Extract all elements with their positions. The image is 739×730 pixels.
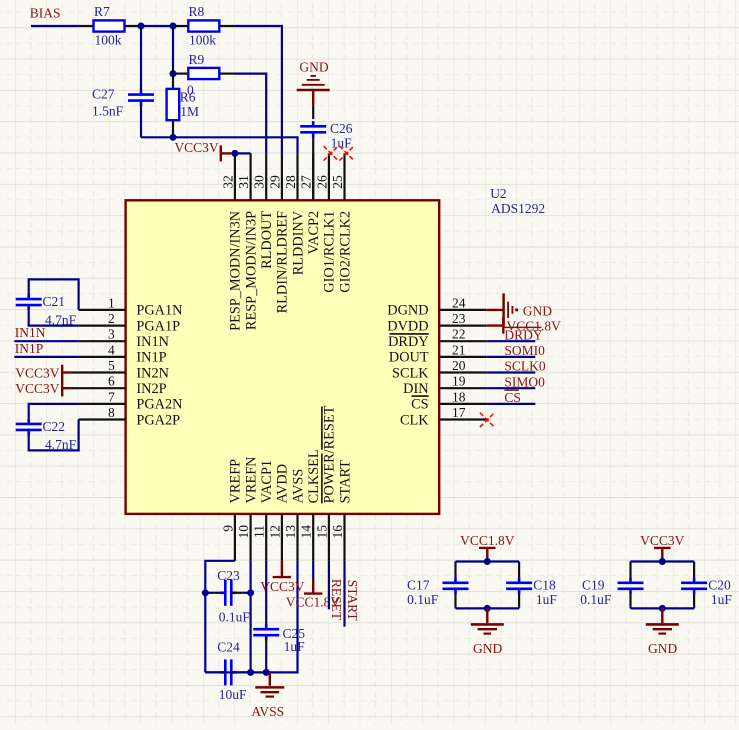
svg-text:DRDY: DRDY: [504, 327, 543, 342]
svg-text:VCC3V: VCC3V: [15, 381, 60, 396]
svg-text:AVDD: AVDD: [275, 464, 291, 503]
svg-text:DGND: DGND: [387, 303, 428, 319]
svg-text:SIMO0: SIMO0: [504, 374, 545, 389]
svg-text:GIO2/RCLK2: GIO2/RCLK2: [337, 211, 353, 293]
svg-text:CS: CS: [411, 397, 429, 413]
svg-text:17: 17: [452, 405, 466, 420]
svg-text:C23: C23: [217, 568, 240, 583]
svg-text:100k: 100k: [95, 32, 122, 47]
svg-text:DIN: DIN: [403, 381, 428, 397]
svg-text:IN1P: IN1P: [15, 341, 44, 356]
svg-text:1M: 1M: [180, 104, 199, 119]
svg-text:RESP_MODN/IN3P: RESP_MODN/IN3P: [243, 211, 259, 330]
svg-text:4: 4: [108, 342, 115, 357]
svg-text:IN1P: IN1P: [136, 350, 166, 366]
svg-text:C27: C27: [92, 86, 115, 101]
svg-text:AVSS: AVSS: [290, 469, 306, 504]
svg-text:C18: C18: [533, 578, 556, 593]
svg-text:7: 7: [108, 389, 115, 404]
svg-text:START: START: [345, 580, 360, 622]
svg-text:31: 31: [236, 175, 251, 189]
svg-text:4.7nF: 4.7nF: [45, 437, 77, 452]
svg-text:CLK: CLK: [400, 412, 429, 428]
svg-text:3: 3: [108, 327, 115, 342]
svg-text:VCC3V: VCC3V: [260, 579, 305, 594]
svg-text:GND: GND: [523, 303, 552, 318]
svg-text:IN2N: IN2N: [136, 365, 169, 381]
svg-text:4.7nF: 4.7nF: [45, 312, 77, 327]
svg-text:GND: GND: [473, 641, 502, 656]
svg-text:9: 9: [220, 525, 235, 532]
svg-text:POWER/RESET: POWER/RESET: [322, 405, 338, 503]
svg-text:28: 28: [283, 175, 298, 189]
svg-text:U2: U2: [490, 186, 507, 201]
svg-text:SOMI0: SOMI0: [504, 343, 545, 358]
svg-text:C22: C22: [43, 419, 66, 434]
svg-text:C26: C26: [330, 121, 353, 136]
svg-text:PGA1P: PGA1P: [136, 318, 180, 334]
svg-text:GND: GND: [648, 641, 677, 656]
svg-text:IN1N: IN1N: [15, 325, 46, 340]
svg-text:19: 19: [452, 374, 466, 389]
svg-text:VCC3V: VCC3V: [15, 365, 60, 380]
svg-text:10uF: 10uF: [219, 687, 247, 702]
svg-text:VREFP: VREFP: [228, 459, 244, 504]
svg-text:30: 30: [252, 175, 267, 189]
svg-text:20: 20: [452, 358, 466, 373]
svg-text:RLDDINV: RLDDINV: [290, 210, 306, 275]
svg-text:VCC3V: VCC3V: [640, 533, 685, 548]
svg-text:PGA2N: PGA2N: [136, 397, 182, 413]
svg-text:11: 11: [252, 525, 267, 538]
svg-text:32: 32: [220, 175, 235, 189]
svg-text:R7: R7: [94, 4, 110, 19]
svg-text:12: 12: [267, 525, 282, 539]
svg-text:GND: GND: [299, 59, 328, 74]
svg-text:1uF: 1uF: [711, 592, 733, 607]
svg-text:IN1N: IN1N: [136, 334, 169, 350]
svg-text:VCC3V: VCC3V: [174, 140, 219, 155]
svg-text:RLDOUT: RLDOUT: [259, 211, 275, 269]
svg-text:START: START: [337, 460, 353, 504]
svg-text:R8: R8: [189, 4, 205, 19]
svg-text:6: 6: [108, 374, 115, 389]
svg-text:VCC1.8V: VCC1.8V: [460, 533, 515, 548]
svg-text:DVDD: DVDD: [387, 318, 428, 334]
svg-text:C17: C17: [407, 578, 430, 593]
svg-text:SCLK: SCLK: [392, 365, 429, 381]
svg-text:PGA2P: PGA2P: [136, 412, 180, 428]
svg-text:AVSS: AVSS: [251, 704, 284, 719]
svg-text:C20: C20: [708, 578, 731, 593]
svg-text:18: 18: [452, 389, 466, 404]
svg-text:22: 22: [452, 327, 466, 342]
svg-text:13: 13: [283, 525, 298, 539]
svg-text:8: 8: [108, 405, 115, 420]
svg-text:2: 2: [108, 311, 115, 326]
svg-text:R9: R9: [189, 52, 205, 67]
svg-text:VREFN: VREFN: [243, 457, 259, 504]
svg-text:1uF: 1uF: [536, 592, 558, 607]
svg-text:CS: CS: [504, 390, 521, 405]
svg-text:GIO1/RCLK1: GIO1/RCLK1: [322, 211, 338, 293]
svg-text:R6: R6: [180, 89, 196, 104]
svg-text:C21: C21: [43, 294, 66, 309]
svg-text:1.5nF: 1.5nF: [92, 103, 124, 118]
svg-text:DRDY: DRDY: [388, 334, 429, 350]
svg-text:C19: C19: [582, 578, 605, 593]
svg-text:CLKSEL: CLKSEL: [306, 449, 322, 503]
svg-text:23: 23: [452, 311, 466, 326]
svg-text:0.1uF: 0.1uF: [219, 609, 251, 624]
svg-text:PESP_MODN/IN3N: PESP_MODN/IN3N: [228, 211, 244, 331]
svg-text:15: 15: [314, 525, 329, 539]
svg-text:DOUT: DOUT: [389, 350, 429, 366]
svg-text:IN2P: IN2P: [136, 381, 166, 397]
svg-text:24: 24: [452, 295, 466, 310]
svg-text:14: 14: [299, 525, 314, 539]
svg-text:27: 27: [299, 175, 314, 189]
svg-text:29: 29: [267, 175, 282, 189]
svg-text:25: 25: [330, 175, 345, 189]
svg-text:PGA1N: PGA1N: [136, 303, 182, 319]
svg-text:SCLK0: SCLK0: [504, 359, 546, 374]
svg-text:100k: 100k: [189, 32, 216, 47]
svg-text:21: 21: [452, 342, 466, 357]
svg-text:BIAS: BIAS: [30, 5, 61, 20]
svg-text:5: 5: [108, 358, 115, 373]
svg-text:ADS1292: ADS1292: [491, 201, 545, 216]
svg-text:RLDIN/RLDREF: RLDIN/RLDREF: [275, 211, 291, 314]
svg-text:0.1uF: 0.1uF: [580, 592, 612, 607]
svg-text:1uF: 1uF: [284, 639, 306, 654]
svg-text:VACP2: VACP2: [306, 211, 322, 254]
svg-text:10: 10: [236, 525, 251, 539]
svg-text:26: 26: [314, 175, 329, 189]
svg-text:VACP1: VACP1: [259, 460, 275, 503]
svg-text:0.1uF: 0.1uF: [407, 592, 439, 607]
svg-text:1: 1: [108, 295, 115, 310]
svg-text:RESET: RESET: [329, 579, 344, 621]
svg-text:16: 16: [330, 525, 345, 539]
svg-text:C24: C24: [217, 640, 240, 655]
